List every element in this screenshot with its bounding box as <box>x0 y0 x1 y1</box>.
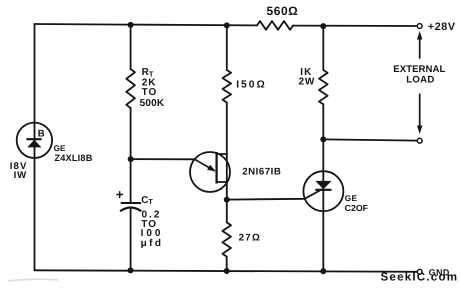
resistor 560Ω body <box>257 21 293 30</box>
junction dot load/1K branch <box>320 136 326 142</box>
junction dot gate/27Ω branch <box>224 197 230 203</box>
SCR cathode bar <box>315 189 331 191</box>
UJT emitter arrowhead <box>207 165 216 172</box>
wire: UJT B1 lead <box>217 181 227 183</box>
wire: 150Ω/27Ω branch middle segment <box>226 103 228 223</box>
wire: RT/CT branch upper segment <box>130 25 132 69</box>
svg-text:IW: IW <box>14 170 28 181</box>
svg-text:500K: 500K <box>140 98 165 109</box>
svg-text:+: + <box>116 187 124 202</box>
transistor Q1 2N1671B (UJT) circle <box>190 152 230 192</box>
svg-text:2W: 2W <box>299 77 316 88</box>
external load arrow down head <box>417 126 422 135</box>
junction dot emitter/RT branch <box>128 156 134 162</box>
svg-text:B: B <box>38 129 45 140</box>
terminal +28V <box>417 24 422 29</box>
resistor 150Ω body <box>223 70 232 103</box>
zener cathode bar <box>26 138 41 140</box>
svg-text:Z4XLI8B: Z4XLI8B <box>54 153 92 163</box>
wire: top rail right segment to +28V terminal <box>293 25 417 27</box>
junction dot bottom SCR <box>320 268 326 274</box>
UJT emitter diagonal <box>195 159 215 171</box>
svg-text:LOAD: LOAD <box>406 74 434 85</box>
UJT base bar <box>215 152 217 184</box>
wire: load junction to bottom load terminal <box>323 139 417 140</box>
wire: left branch vertical (zener branch) <box>34 24 36 270</box>
resistor 27Ω body <box>222 222 231 256</box>
svg-text:TO: TO <box>142 87 158 98</box>
zener triangle (anode, pointing up) <box>27 140 41 148</box>
wire: CT branch lower segment <box>130 207 132 270</box>
SCR GE C20F circle <box>303 171 343 211</box>
SCR triangle (pointing down) <box>315 181 331 189</box>
junction dot bottom CT <box>128 267 134 273</box>
junction dot top 150Ω <box>224 22 230 28</box>
terminal load bottom <box>417 138 422 143</box>
junction dot top RT <box>128 22 134 28</box>
external load arrow down shaft <box>419 94 421 127</box>
svg-text:C2OF: C2OF <box>345 203 369 213</box>
capacitor CT top plate <box>122 202 141 204</box>
wire: UJT emitter horizontal lead <box>131 158 195 160</box>
external load arrow up head <box>417 31 422 40</box>
svg-text:GE: GE <box>345 193 358 203</box>
svg-text:GND: GND <box>429 268 450 278</box>
svg-text:GE: GE <box>54 144 66 153</box>
junction dot bottom 27Ω <box>224 268 230 274</box>
external load arrow up shaft <box>419 39 421 59</box>
wire: 27Ω branch lower segment <box>226 257 228 271</box>
terminal GND <box>417 269 422 274</box>
resistor 1K body <box>319 70 328 104</box>
wire: 150Ω/27Ω branch upper segment <box>226 25 228 70</box>
svg-text:μfd: μfd <box>141 238 164 249</box>
svg-text:EXTERNAL: EXTERNAL <box>393 64 445 75</box>
zener diode GE Z4XL18B circle <box>17 123 52 158</box>
svg-text:C: C <box>141 195 148 206</box>
svg-text:27Ω: 27Ω <box>239 232 261 243</box>
wire: bottom ground rail <box>35 270 418 272</box>
svg-text:+28V: +28V <box>428 21 456 33</box>
svg-text:T: T <box>148 197 153 206</box>
wire: 1K branch to load junction and SCR anode <box>322 104 324 271</box>
svg-text:I50Ω: I50Ω <box>236 80 267 91</box>
svg-text:560Ω: 560Ω <box>267 4 299 18</box>
capacitor CT curved bottom plate <box>121 208 141 211</box>
junction dot top 1K <box>320 23 326 29</box>
wire: top rail left segment (+V bus) <box>35 24 258 25</box>
wire: SCR gate wire from 27Ω junction <box>227 190 322 200</box>
wire: RT/CT branch middle segment <box>130 108 132 203</box>
svg-text:2NI67IB: 2NI67IB <box>242 167 281 178</box>
wire: 1K branch upper segment <box>322 26 324 70</box>
wire: UJT B2 lead <box>217 153 227 155</box>
resistor RT body <box>126 69 135 108</box>
